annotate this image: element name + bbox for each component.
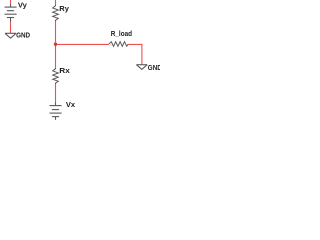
svg-text:GND: GND	[148, 63, 160, 72]
label R_load	[111, 29, 133, 38]
label Vy	[18, 0, 28, 9]
wire junction to R_load	[56, 43, 109, 45]
voltage source Vx	[50, 102, 62, 119]
resistor R_load	[109, 42, 128, 47]
label GND right	[148, 63, 163, 72]
label GND left	[16, 30, 31, 39]
ground right	[136, 65, 147, 70]
wire R_load to right ground	[128, 44, 142, 65]
label Vx	[66, 100, 76, 109]
svg-text:Rx: Rx	[59, 66, 70, 75]
label Rx	[59, 66, 70, 75]
svg-text:GND: GND	[16, 30, 31, 39]
ground left	[5, 33, 16, 38]
svg-text:Vx: Vx	[66, 100, 76, 109]
label Ry	[59, 4, 69, 13]
wire top stub to Ry	[55, 0, 57, 5]
wire Ry bottom to junction to Rx top	[55, 21, 57, 68]
wire top stub to Vy	[10, 0, 12, 4]
wire Vy to ground	[10, 22, 12, 33]
voltage source Vy	[5, 4, 17, 22]
resistor Ry	[53, 5, 59, 22]
resistor Rx	[53, 68, 59, 84]
node junction	[54, 43, 57, 46]
wire Rx to Vx	[55, 84, 57, 102]
svg-text:R_load: R_load	[111, 29, 133, 38]
svg-text:Ry: Ry	[59, 4, 69, 13]
svg-text:Vy: Vy	[18, 0, 28, 9]
